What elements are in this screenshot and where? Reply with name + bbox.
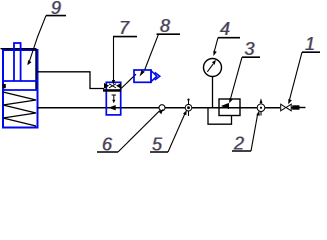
wire: main line right of shutoff valve [291,107,294,109]
label 9 [50,0,62,18]
label 5 [151,135,164,155]
valve V7 thick bar [103,89,121,92]
pressure reducing valve R3 body [219,99,240,116]
svg-text:6: 6 [102,135,113,155]
label 5 underline [150,151,168,153]
leader line for label 2 [251,110,260,151]
leader line for label 9 [27,16,46,66]
svg-text:3: 3 [245,39,255,59]
wire: main line [37,107,280,109]
label 3 [244,39,256,59]
wire: gauge G4 drop to main line [212,77,214,108]
junction J5 [185,99,192,117]
valve V7 body [106,82,120,115]
pressure gauge G4 [204,59,222,77]
nozzle N8 chevron [155,72,160,80]
label 4 underline [218,37,240,39]
svg-text:4: 4 [220,19,230,39]
wire: cylinder top port to valve [37,72,104,89]
label 6 underline [97,151,118,153]
valve V7 exhaust arrow [112,95,116,103]
piston of cylinder C9 [3,81,37,90]
leader line for label 3 [229,57,242,103]
wire: valve V7 to nozzle N8 [120,74,137,90]
label 2 underline [232,150,251,152]
valve V7 right flow triangle [116,83,121,89]
leader line for label 8 [140,34,159,76]
leader line for label 7 [112,37,115,85]
cylinder C9 top edge black overlay [1,48,37,50]
nozzle N8 box [134,70,151,82]
air inlet arrow at line end [292,105,299,109]
label 2 [232,134,245,154]
svg-text:1: 1 [305,34,315,54]
label 9 underline [46,15,66,17]
label 3 underline [242,56,260,58]
label 6 [101,135,114,155]
label 1 underline [302,51,320,53]
junction J6 [159,105,165,111]
spring in cylinder C9 [3,92,36,126]
valve V7 crossed flow lines [109,84,116,88]
leader line for label 5 [168,110,187,152]
leader line for label 1 [288,52,302,104]
svg-text:7: 7 [119,18,130,38]
svg-text:8: 8 [160,16,170,36]
leader line for label 4 [213,38,218,56]
flow arrow inside valve R3 [221,103,229,109]
label 7 [118,18,131,38]
leader line for label 6 [118,109,163,152]
junction J2 [257,98,265,115]
svg-text:5: 5 [152,135,163,155]
label 8 underline [157,33,181,35]
flow arrow on main line inside valve V7 [108,105,115,110]
cylinder C9 right edge black overlay [35,49,37,90]
shutoff valve S1 bowtie [281,104,292,111]
svg-text:2: 2 [233,134,244,154]
valve V7 left flow triangle [104,83,109,89]
port marker on cylinder left edge [2,84,5,88]
label 8 [159,16,171,36]
pilot line loop of valve R3 [208,108,232,125]
label 4 [219,19,231,39]
label 7 underline [113,36,137,38]
piston rod of cylinder C9 [13,43,21,81]
nozzle N8 cone [151,71,157,82]
label 1 [304,34,316,54]
svg-text:9: 9 [51,0,61,18]
air inlet tail line [300,107,306,109]
cylinder C9 body [3,50,38,128]
